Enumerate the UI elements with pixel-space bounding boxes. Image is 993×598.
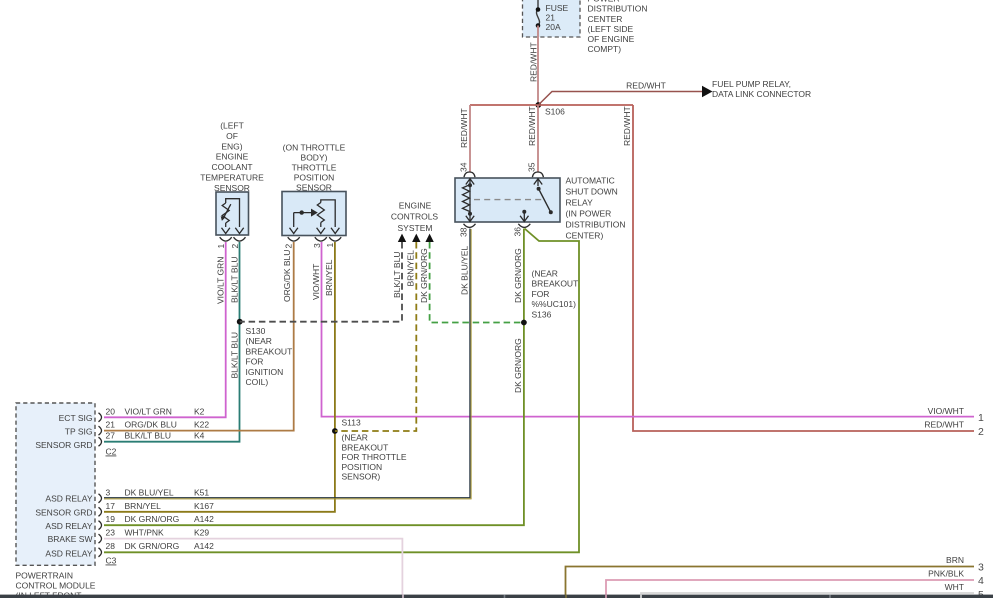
- svg-text:S113: S113: [342, 418, 361, 428]
- svg-text:4: 4: [978, 575, 984, 587]
- svg-text:3: 3: [106, 487, 111, 497]
- PCM left labels: [35, 413, 92, 559]
- svg-text:VIO/WHT: VIO/WHT: [311, 264, 321, 300]
- relay pin 35 connector: [532, 172, 543, 177]
- TP pin 1 connector: [329, 237, 341, 241]
- wire VIO/WHT TP pin3 to right edge: [322, 242, 975, 417]
- relay pin 38 connector: [464, 224, 476, 228]
- svg-text:1: 1: [325, 243, 335, 248]
- svg-text:RED/WHT: RED/WHT: [527, 106, 537, 146]
- arrow up BRN/YEL: [412, 234, 420, 242]
- TP pin 2 connector: [288, 237, 300, 241]
- svg-text:VIO/LT GRN: VIO/LT GRN: [125, 406, 172, 416]
- svg-text:ASD RELAY: ASD RELAY: [45, 494, 92, 504]
- svg-text:DK GRN/ORG: DK GRN/ORG: [513, 338, 523, 393]
- wire BRN/YEL TP pin1 to PCM pin 17: [104, 242, 335, 512]
- svg-text:TEMPERATURE: TEMPERATURE: [200, 173, 264, 183]
- svg-text:BREAKOUT: BREAKOUT: [532, 279, 579, 289]
- wire WHT bottom right: [641, 593, 974, 598]
- svg-text:S130: S130: [246, 326, 266, 336]
- svg-text:BRN: BRN: [946, 555, 964, 565]
- svg-text:CONTROL MODULE: CONTROL MODULE: [16, 581, 96, 591]
- svg-text:34: 34: [459, 162, 469, 172]
- svg-text:1: 1: [978, 412, 984, 424]
- svg-text:FOR THROTTLE: FOR THROTTLE: [342, 452, 407, 462]
- svg-text:ORG/DK BLU: ORG/DK BLU: [282, 250, 292, 302]
- svg-text:C3: C3: [106, 556, 117, 566]
- wire ORG/DK BLU TP pin2 to PCM pin 21: [104, 242, 294, 431]
- svg-text:TP SIG: TP SIG: [65, 427, 93, 437]
- wire RED/WHT to relay pin 34: [469, 105, 471, 172]
- relay switch: [534, 179, 542, 186]
- PCM pin connectors: [99, 413, 102, 557]
- svg-text:(LEFT SIDE: (LEFT SIDE: [588, 24, 634, 34]
- svg-text:BLK/LT BLU: BLK/LT BLU: [229, 257, 239, 303]
- svg-text:IGNITION: IGNITION: [246, 367, 284, 377]
- svg-text:A142: A142: [194, 541, 214, 551]
- svg-text:BREAKOUT: BREAKOUT: [342, 442, 389, 452]
- svg-text:(NEAR: (NEAR: [342, 433, 368, 443]
- wire RED/WHT to fuel pump relay (arrow): [538, 81, 712, 106]
- bottom toolbar: [0, 595, 993, 598]
- svg-text:(NEAR: (NEAR: [246, 336, 272, 346]
- TP potentiometer symbol: [294, 200, 336, 227]
- node S136: [521, 320, 527, 326]
- arrow up DK GRN/ORG: [425, 234, 433, 242]
- svg-text:1: 1: [216, 244, 226, 249]
- svg-text:BRN/YEL: BRN/YEL: [125, 501, 162, 511]
- svg-text:DISTRIBUTION: DISTRIBUTION: [588, 4, 648, 14]
- wire dashed BRN/YEL to S113: [335, 242, 416, 431]
- relay pin 36 connector: [518, 224, 530, 228]
- svg-text:17: 17: [106, 501, 116, 511]
- svg-text:THROTTLE: THROTTLE: [292, 163, 337, 173]
- svg-text:K2: K2: [194, 406, 205, 416]
- svg-text:ECT SIG: ECT SIG: [59, 413, 93, 423]
- wire RED/WHT S106 horizontal bus: [470, 104, 633, 106]
- svg-text:CONTROLS: CONTROLS: [391, 212, 439, 222]
- svg-text:POSITION: POSITION: [294, 173, 335, 183]
- svg-text:DISTRIBUTION: DISTRIBUTION: [566, 220, 626, 230]
- svg-text:RED/WHT: RED/WHT: [924, 420, 964, 430]
- svg-text:2: 2: [978, 426, 984, 438]
- svg-text:BLK/LT BLU: BLK/LT BLU: [392, 252, 402, 298]
- svg-text:COOLANT: COOLANT: [211, 162, 252, 172]
- svg-text:ENGINE: ENGINE: [399, 200, 432, 210]
- svg-text:28: 28: [106, 541, 116, 551]
- engine controls system label: [391, 200, 439, 233]
- svg-text:VIO/LT GRN: VIO/LT GRN: [216, 257, 226, 304]
- ECT pin 1 connector: [220, 237, 232, 241]
- svg-text:DK BLU/YEL: DK BLU/YEL: [125, 487, 174, 497]
- svg-text:WHT: WHT: [945, 582, 964, 592]
- svg-text:(ON THROTTLE: (ON THROTTLE: [283, 142, 346, 152]
- svg-text:27: 27: [106, 431, 116, 441]
- svg-text:SENSOR): SENSOR): [342, 472, 381, 482]
- svg-text:ASD RELAY: ASD RELAY: [45, 521, 92, 531]
- svg-text:POWERTRAIN: POWERTRAIN: [16, 570, 73, 580]
- svg-text:CENTER): CENTER): [566, 231, 604, 241]
- svg-text:BRAKE SW: BRAKE SW: [48, 534, 93, 544]
- svg-text:SYSTEM: SYSTEM: [398, 223, 433, 233]
- svg-text:ORG/DK BLU: ORG/DK BLU: [125, 420, 177, 430]
- svg-text:RED/WHT: RED/WHT: [622, 106, 632, 146]
- wire BRN bottom right: [566, 567, 975, 598]
- svg-text:RED/WHT: RED/WHT: [626, 81, 666, 91]
- svg-text:ASD RELAY: ASD RELAY: [45, 549, 92, 559]
- svg-text:DK GRN/ORG: DK GRN/ORG: [125, 514, 180, 524]
- svg-text:(IN POWER: (IN POWER: [566, 209, 612, 219]
- node S113: [332, 428, 338, 434]
- ECT pin 2 connector: [234, 237, 246, 241]
- svg-text:(LEFT: (LEFT: [220, 121, 244, 131]
- PCM box (dashed): [16, 403, 95, 565]
- wire RED/WHT fuse to S106: [537, 26, 539, 106]
- svg-text:38: 38: [459, 227, 469, 237]
- off-page label: fuel pump relay / data link connector: [712, 79, 811, 99]
- svg-text:19: 19: [106, 514, 116, 524]
- svg-text:K22: K22: [194, 420, 209, 430]
- svg-text:K29: K29: [194, 528, 209, 538]
- svg-text:DK BLU/YEL: DK BLU/YEL: [460, 246, 470, 295]
- svg-text:BRN/YEL: BRN/YEL: [324, 259, 334, 296]
- fuse F21 20A symbol: [536, 0, 539, 26]
- svg-text:DK GRN/ORG: DK GRN/ORG: [419, 248, 429, 303]
- TP pin arrows: [290, 228, 340, 234]
- svg-text:POSITION: POSITION: [342, 462, 383, 472]
- svg-text:RELAY: RELAY: [566, 198, 594, 208]
- svg-text:DK GRN/ORG: DK GRN/ORG: [125, 541, 180, 551]
- svg-text:BLK/LT BLU: BLK/LT BLU: [125, 431, 171, 441]
- svg-text:S136: S136: [532, 309, 552, 319]
- svg-text:BREAKOUT: BREAKOUT: [246, 346, 293, 356]
- node S106: [535, 102, 541, 108]
- svg-text:DATA LINK CONNECTOR: DATA LINK CONNECTOR: [712, 89, 811, 99]
- TP sensor header label: [283, 142, 346, 192]
- wire dashed DK GRN/ORG to S136: [430, 242, 524, 323]
- svg-text:DK GRN/ORG: DK GRN/ORG: [513, 248, 523, 303]
- svg-text:FOR: FOR: [532, 289, 550, 299]
- fuse value label: [546, 3, 569, 32]
- svg-text:ENGINE: ENGINE: [216, 152, 249, 162]
- svg-text:21: 21: [106, 420, 116, 430]
- TP sensor box: [282, 192, 346, 236]
- svg-text:AUTOMATIC: AUTOMATIC: [566, 176, 615, 186]
- svg-text:BLK/LT BLU: BLK/LT BLU: [229, 332, 239, 378]
- svg-text:(NEAR: (NEAR: [532, 269, 558, 279]
- svg-text:FUEL PUMP RELAY,: FUEL PUMP RELAY,: [712, 79, 791, 89]
- arrow up BLK/LT BLU: [398, 234, 406, 242]
- svg-text:BRN/YEL: BRN/YEL: [406, 250, 416, 287]
- svg-text:A142: A142: [194, 514, 214, 524]
- svg-text:23: 23: [106, 528, 116, 538]
- svg-text:OF ENGINE: OF ENGINE: [588, 34, 635, 44]
- svg-text:FOR: FOR: [246, 357, 264, 367]
- TP wiper arrow and junction: [311, 209, 318, 217]
- svg-text:20A: 20A: [546, 22, 561, 32]
- svg-text:2: 2: [230, 244, 240, 249]
- wire DK BLU/YEL relay pin38 to PCM pin 3: [104, 229, 470, 498]
- svg-text:K167: K167: [194, 501, 214, 511]
- wire DK GRN/ORG relay pin36 to PCM pin 19: [104, 229, 524, 526]
- fuse box (power distribution center, dashed): [523, 0, 581, 37]
- wire VIO/LT GRN ECT pin1 to PCM pin 20: [104, 242, 226, 417]
- svg-text:S106: S106: [545, 107, 565, 117]
- PCM caption: [16, 570, 96, 598]
- svg-text:COIL): COIL): [246, 377, 269, 387]
- svg-text:3: 3: [312, 243, 322, 248]
- PCM pin row labels: [106, 406, 215, 551]
- ECT sensor header label: [200, 121, 264, 193]
- relay internal dashed link: [474, 199, 543, 201]
- power distribution center label: [588, 0, 648, 54]
- toolbar ticks: [403, 595, 830, 598]
- wire dashed BLK/LT BLU to S130: [240, 242, 402, 322]
- svg-text:RED/WHT: RED/WHT: [529, 42, 539, 82]
- svg-text:PNK/BLK: PNK/BLK: [928, 569, 964, 579]
- svg-text:BODY): BODY): [301, 152, 328, 162]
- svg-text:FUSE: FUSE: [546, 3, 569, 13]
- TP pin 3 connector: [315, 237, 327, 241]
- svg-text:VIO/WHT: VIO/WHT: [928, 406, 964, 416]
- ECT sensor box: [216, 192, 249, 235]
- ASD relay box: [455, 178, 560, 222]
- relay label: [566, 176, 626, 241]
- svg-text:OF: OF: [226, 131, 238, 141]
- relay coil: [463, 179, 475, 222]
- svg-text:C2: C2: [106, 447, 117, 457]
- node S130: [237, 319, 243, 325]
- svg-text:WHT/PNK: WHT/PNK: [125, 528, 165, 538]
- svg-text:K4: K4: [194, 431, 205, 441]
- svg-text:SHUT DOWN: SHUT DOWN: [566, 187, 618, 197]
- svg-text:K51: K51: [194, 487, 209, 497]
- svg-text:ENG): ENG): [221, 141, 242, 151]
- svg-text:3: 3: [978, 562, 984, 574]
- svg-text:SENSOR GRD: SENSOR GRD: [35, 440, 92, 450]
- svg-text:RED/WHT: RED/WHT: [459, 108, 469, 148]
- wire RED/WHT right branch down: [633, 105, 974, 431]
- svg-text:COMPT): COMPT): [588, 44, 622, 54]
- svg-text:36: 36: [513, 227, 523, 237]
- svg-text:%%UC101): %%UC101): [532, 299, 577, 309]
- fuse terminal dots: [536, 7, 541, 12]
- svg-text:2: 2: [284, 244, 294, 249]
- wire WHT/PNK PCM pin 23 down: [104, 539, 402, 598]
- ECT thermistor symbol: [222, 199, 239, 227]
- wire PNK/BLK bottom right: [606, 580, 974, 598]
- wire DK GRN/ORG branch relay pin36 to PCM pin 28: [104, 229, 579, 553]
- svg-text:20: 20: [106, 406, 116, 416]
- svg-text:21: 21: [546, 13, 556, 23]
- wire BLK/LT BLU ECT pin2 to PCM pin 27: [104, 242, 240, 442]
- svg-text:CENTER: CENTER: [588, 14, 623, 24]
- svg-text:SENSOR GRD: SENSOR GRD: [35, 508, 92, 518]
- relay pin 34 connector: [464, 172, 475, 177]
- ECT pin arrows: [222, 228, 244, 234]
- svg-text:35: 35: [527, 162, 537, 172]
- wire RED/WHT to relay pin 35: [537, 105, 539, 172]
